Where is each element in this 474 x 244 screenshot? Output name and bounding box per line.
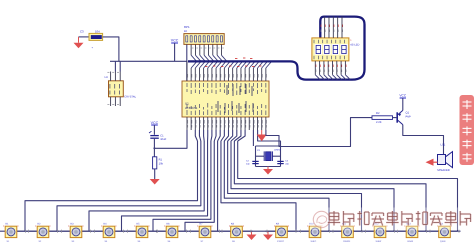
svg-text:22p: 22p (246, 163, 250, 166)
RP1 pin wires into bus (191, 44, 227, 61)
ground arrow speaker (426, 159, 438, 166)
wire RP1 pin1 / EA to U1 pin (186, 44, 188, 81)
button K8 (221, 223, 253, 243)
button K6 (156, 223, 188, 243)
crystal X1 (256, 149, 281, 161)
svg-text:12MHz: 12MHz (274, 149, 281, 152)
crystal block U2 (105, 72, 137, 107)
button K1 (0, 223, 27, 243)
svg-text:VCC: VCC (171, 39, 179, 43)
svg-text:PNP: PNP (406, 116, 411, 119)
wire C3 to net EA (103, 37, 119, 61)
MCU U1 AT89C51 (182, 81, 269, 117)
capacitor C2 (246, 160, 259, 166)
ground keypad left chain (247, 231, 257, 240)
U1 top pins bus entries (191, 62, 271, 68)
U1 bottom pin stubs (187, 117, 267, 130)
svg-text:S2: S2 (39, 240, 42, 243)
button K13 (396, 223, 428, 243)
display top pins (321, 17, 343, 38)
svg-text:X1: X1 (257, 149, 261, 152)
wire U2 pins to net (115, 61, 120, 71)
svg-text:K3: K3 (71, 223, 75, 226)
svg-text:LS1: LS1 (441, 144, 446, 147)
capacitor C3 (79, 29, 103, 49)
button K4 (93, 223, 125, 243)
power VCC reset (151, 121, 159, 135)
wire keypad fan jogs (195, 130, 245, 141)
watermark text (328, 211, 471, 226)
button K3 (60, 223, 92, 243)
svg-text:S1: S1 (7, 240, 10, 243)
svg-text:CRYSTAL: CRYSTAL (124, 96, 136, 99)
svg-text:K1: K1 (6, 223, 10, 226)
button K7 (189, 223, 221, 243)
button K11 (332, 223, 364, 243)
power VCC Q1 (399, 94, 406, 111)
svg-text:S8: S8 (232, 240, 235, 243)
transistor Q1 PNP (397, 110, 411, 124)
svg-text:+: + (92, 47, 94, 50)
display DS1 7SEG-MPX4 (312, 38, 360, 61)
button K5 (126, 223, 158, 243)
ground keypad right chain (263, 231, 273, 240)
svg-text:SHIYI: SHIYI (311, 240, 317, 243)
resistor pack RP1 (184, 25, 224, 44)
svg-text:C2: C2 (246, 160, 250, 163)
svg-text:S4: S4 (105, 240, 108, 243)
button K12 (364, 223, 396, 243)
wire crystal top rail (256, 145, 281, 147)
capacitor C1 10uF (149, 131, 167, 157)
svg-text:S7: S7 (201, 240, 204, 243)
button K10 (299, 223, 331, 243)
resistor R2 2.2K (372, 112, 396, 124)
button K9 (266, 223, 298, 243)
red net labels P0 (205, 58, 261, 67)
svg-text:K9: K9 (276, 223, 280, 226)
svg-text:C3: C3 (80, 29, 84, 33)
svg-text:START: START (277, 240, 285, 243)
watermark logo (313, 211, 329, 227)
svg-text:K4: K4 (104, 223, 108, 226)
wire keypad rail (5, 230, 458, 232)
svg-text:C1: C1 (160, 135, 164, 138)
svg-text:R1: R1 (159, 159, 163, 162)
svg-text:SHIW: SHIW (376, 240, 383, 243)
svg-text:10uF: 10uF (160, 138, 166, 141)
display bottom pins (315, 61, 350, 80)
wire RST net (153, 130, 187, 149)
svg-text:Q1: Q1 (406, 112, 410, 115)
svg-text:2.2K: 2.2K (376, 121, 382, 124)
svg-text:K7: K7 (200, 223, 204, 226)
svg-text:GEWEI: GEWEI (343, 240, 351, 243)
wire Q1 collector to speaker (403, 125, 444, 155)
U1 top pin stubs (187, 61, 267, 81)
svg-text:104: 104 (95, 29, 100, 33)
bus P0/P2 loop (188, 17, 365, 80)
svg-text:4S-LED: 4S-LED (350, 43, 359, 46)
ground for R1 (150, 179, 160, 185)
watermark band (310, 208, 474, 231)
svg-text:C4: C4 (285, 160, 289, 163)
capacitor C4 (277, 160, 289, 166)
ground for C3 (74, 37, 84, 48)
wire XTAL2 (258, 130, 281, 167)
svg-text:QIAN: QIAN (440, 240, 446, 243)
wire crystal ground rail (256, 167, 281, 170)
svg-text:K8: K8 (231, 223, 235, 226)
wire XTAL1 (253, 130, 255, 167)
svg-text:S5: S5 (138, 240, 141, 243)
svg-text:K5: K5 (137, 223, 141, 226)
svg-text:SPEAKER: SPEAKER (437, 169, 450, 172)
wire U1 to R2 (266, 118, 372, 147)
ground U1 GND pin (257, 130, 267, 141)
svg-text:10k: 10k (159, 163, 164, 166)
svg-text:1: 1 (350, 39, 352, 42)
wire net EA/VCC horizontal (110, 60, 187, 62)
wire left keypad fan (25, 141, 218, 231)
svg-text:S3: S3 (72, 240, 75, 243)
svg-text:BAIW: BAIW (408, 240, 415, 243)
svg-text:K6: K6 (167, 223, 171, 226)
svg-text:22p: 22p (285, 163, 289, 166)
svg-text:U2: U2 (105, 76, 109, 79)
resistor R1 10k (153, 157, 164, 179)
ground for crystal (263, 169, 273, 175)
wire right keypad fan (221, 141, 458, 231)
svg-text:1K: 1K (184, 30, 187, 33)
svg-text:VCC: VCC (151, 121, 159, 125)
svg-text:S6: S6 (168, 240, 171, 243)
svg-text:R2: R2 (376, 112, 380, 115)
svg-text:K2: K2 (38, 223, 42, 226)
svg-text:RP1: RP1 (184, 25, 190, 29)
button K2 (27, 223, 59, 243)
speaker LS1 (437, 144, 453, 172)
svg-text:VCC: VCC (399, 94, 406, 98)
button K14 (429, 223, 461, 243)
power VCC (171, 39, 179, 62)
watermark side bar (460, 95, 474, 165)
